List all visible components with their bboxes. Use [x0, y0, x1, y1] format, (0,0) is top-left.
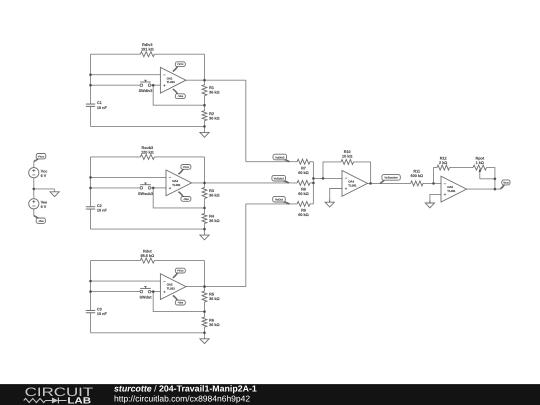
resistor R2 — [202, 111, 219, 121]
svg-text:R5: R5 — [209, 293, 214, 297]
power flag +Vcc — [34, 154, 46, 162]
svg-text:+Vcc: +Vcc — [177, 269, 184, 273]
wire — [33, 178, 35, 199]
svg-text:191 kΩ: 191 kΩ — [141, 48, 154, 52]
wire VoDut rise — [245, 204, 247, 287]
wire — [354, 162, 371, 184]
svg-text:Vout: Vout — [503, 181, 509, 184]
svg-text:R2: R2 — [209, 112, 214, 116]
ground — [200, 336, 209, 343]
wire — [323, 162, 341, 179]
node output junction — [203, 285, 206, 288]
node R7 join — [312, 177, 315, 180]
svg-text:TL081: TL081 — [167, 287, 176, 291]
svg-text:TL081: TL081 — [167, 80, 176, 84]
svg-text:2 kΩ: 2 kΩ — [439, 161, 447, 165]
op-amp OA2 — [166, 170, 192, 196]
node supply midpoint — [33, 188, 36, 191]
node switch row junction — [89, 290, 92, 293]
wire — [91, 260, 141, 262]
node feedback branch — [322, 177, 325, 180]
wire — [153, 292, 204, 312]
wire — [204, 121, 206, 130]
wire — [313, 177, 342, 179]
node divider tap junction — [203, 207, 206, 210]
wire OA4 output — [368, 182, 411, 184]
node divider tap junction — [203, 104, 206, 107]
node output junction — [203, 182, 206, 185]
resistor R6 — [202, 317, 219, 327]
voltage source Vcc — [29, 168, 48, 178]
wire — [204, 96, 206, 111]
net flag VoSub3 — [272, 175, 289, 183]
wire — [204, 261, 206, 292]
svg-text:-Vee: -Vee — [183, 197, 189, 201]
svg-text:36 kΩ: 36 kΩ — [209, 297, 219, 301]
svg-text:1 kΩ: 1 kΩ — [476, 161, 484, 165]
power flag -Vee — [173, 295, 186, 305]
wire OA1 output — [186, 79, 246, 81]
power flag +Vcc — [173, 62, 186, 72]
wire — [91, 280, 161, 282]
node feedback tap junction — [152, 290, 155, 293]
wire VoDiv3 row — [246, 161, 297, 163]
wire — [487, 168, 495, 189]
svg-text:R12: R12 — [440, 156, 447, 160]
wire — [151, 84, 161, 86]
node switch row junction — [89, 187, 92, 190]
wire OA2 output — [192, 182, 298, 184]
wire — [91, 53, 141, 55]
svg-text:R8: R8 — [301, 188, 306, 192]
wire — [33, 209, 35, 216]
resistor R7 — [297, 159, 310, 175]
switch SWdiv3 — [139, 80, 153, 93]
node bottom junction — [203, 332, 206, 335]
wire — [91, 156, 141, 158]
op-amp OA5 — [441, 176, 467, 202]
svg-text:LAB: LAB — [67, 396, 91, 405]
wire — [204, 327, 206, 336]
svg-text:C3: C3 — [97, 308, 102, 312]
node R8 join — [312, 182, 315, 185]
svg-text:sturcotte / 204-Travail1-Manip: sturcotte / 204-Travail1-Manip2A-1 — [114, 384, 257, 394]
svg-text:VoDiv3: VoDiv3 — [275, 155, 285, 159]
svg-text:+Vcc: +Vcc — [38, 154, 45, 158]
wire — [330, 189, 342, 203]
power flag -Vee — [173, 89, 186, 99]
svg-text:SWsub3: SWsub3 — [138, 192, 153, 196]
wire — [91, 125, 205, 127]
svg-text:R11: R11 — [413, 170, 420, 174]
net flag VoDiv3 — [273, 154, 289, 162]
node feedback/output junction — [369, 182, 372, 185]
wire — [90, 157, 92, 207]
resistor Rdut — [140, 250, 154, 264]
switch SWsub3 — [138, 183, 153, 196]
ground — [425, 200, 434, 207]
svg-text:R10: R10 — [344, 150, 351, 154]
capacitor C1 — [86, 101, 108, 110]
svg-text:36 kΩ: 36 kΩ — [209, 117, 219, 121]
svg-text:R9: R9 — [301, 209, 306, 213]
wire — [153, 85, 204, 105]
svg-text:http://circuitlab.com/cx8984n6: http://circuitlab.com/cx8984n6h9p42 — [114, 393, 250, 403]
svg-text:-Vee: -Vee — [38, 219, 44, 223]
wire — [151, 291, 161, 293]
svg-text:10 nF: 10 nF — [97, 312, 108, 316]
capacitor C2 — [86, 204, 108, 213]
wire — [310, 203, 313, 205]
wire — [34, 188, 55, 190]
node output junction — [203, 79, 206, 82]
svg-text:36 kΩ: 36 kΩ — [209, 323, 219, 327]
wire — [33, 162, 35, 168]
svg-text:R7: R7 — [301, 166, 306, 170]
resistor R1 — [202, 85, 219, 96]
net flag Vout — [500, 180, 510, 189]
wire — [90, 313, 92, 333]
svg-text:10 nF: 10 nF — [97, 106, 108, 110]
potentiometer Rpot — [473, 156, 487, 179]
wire — [434, 168, 438, 184]
wire VoDut row — [246, 203, 297, 205]
wire — [154, 260, 204, 262]
node switch row junction — [89, 84, 92, 87]
svg-text:6 V: 6 V — [41, 174, 47, 178]
net flag VoDut — [273, 196, 290, 204]
wire wiper — [480, 178, 495, 180]
wire — [91, 187, 141, 189]
resistor R12 — [437, 156, 450, 170]
svg-text:600 kΩ: 600 kΩ — [411, 174, 424, 178]
svg-text:+Vcc: +Vcc — [183, 165, 190, 169]
wire — [204, 54, 206, 84]
svg-text:-Vee: -Vee — [177, 94, 183, 98]
svg-text:Rpot: Rpot — [475, 156, 484, 160]
resistor Rsub3 — [140, 146, 154, 160]
op-amp OA3 — [160, 274, 186, 300]
svg-text:Rdiv3: Rdiv3 — [142, 43, 152, 47]
wire — [310, 182, 313, 184]
wire — [90, 106, 92, 126]
svg-text:60 kΩ: 60 kΩ — [298, 213, 308, 217]
svg-text:Vee: Vee — [41, 200, 48, 204]
svg-text:VoSomInv: VoSomInv — [384, 176, 398, 180]
resistor R4 — [202, 213, 219, 223]
power flag -Vee — [178, 192, 191, 202]
wire — [90, 209, 92, 229]
power flag +Vcc — [178, 165, 191, 175]
wire — [91, 291, 141, 293]
wire — [204, 198, 206, 213]
wire — [423, 182, 441, 184]
wire — [204, 157, 206, 188]
wire — [154, 53, 204, 55]
wire Vout — [467, 188, 502, 190]
svg-text:60 kΩ: 60 kΩ — [298, 171, 308, 175]
wire — [91, 332, 205, 334]
wire — [430, 194, 441, 203]
wire — [91, 74, 161, 76]
power flag -Vee — [34, 216, 46, 224]
svg-text:Vcc: Vcc — [41, 169, 48, 173]
svg-text:6 V: 6 V — [41, 205, 47, 209]
svg-text:R1: R1 — [209, 86, 214, 90]
wire — [450, 167, 474, 169]
ground — [325, 200, 334, 207]
net flag VoSomInv — [380, 175, 400, 184]
wire VoDiv3 drop — [245, 80, 247, 162]
svg-text:95.6 kΩ: 95.6 kΩ — [141, 254, 155, 258]
svg-text:TL081: TL081 — [172, 183, 181, 187]
wire summing join — [312, 162, 314, 204]
svg-text:-Vee: -Vee — [177, 301, 183, 305]
ground — [200, 130, 209, 137]
node inverting input junction — [89, 280, 92, 283]
resistor R9 — [297, 201, 310, 217]
svg-text:10 kΩ: 10 kΩ — [342, 155, 352, 159]
svg-text:Rdut: Rdut — [143, 250, 152, 254]
wire — [153, 188, 204, 208]
wire — [91, 176, 167, 178]
svg-text:36 kΩ: 36 kΩ — [209, 193, 219, 197]
svg-text:SWdiv3: SWdiv3 — [139, 89, 153, 93]
footer bar — [0, 384, 540, 405]
svg-text:36 kΩ: 36 kΩ — [209, 91, 219, 95]
ground — [50, 189, 59, 196]
svg-text:60 kΩ: 60 kΩ — [298, 192, 308, 196]
wire — [91, 84, 141, 86]
wire — [154, 156, 204, 158]
resistor R5 — [202, 291, 219, 302]
node feedback tap junction — [152, 187, 155, 190]
node inverting input junction — [89, 176, 92, 179]
resistor R3 — [202, 187, 219, 198]
op-amp OA4 — [342, 171, 368, 197]
svg-text:R6: R6 — [209, 318, 214, 322]
switch SWdut — [139, 287, 152, 300]
wire — [204, 302, 206, 317]
svg-text:SWdut: SWdut — [139, 296, 152, 300]
wire — [151, 187, 166, 189]
node R12 branch — [432, 182, 435, 185]
svg-text:VoDut: VoDut — [275, 198, 283, 202]
svg-text:+Vcc: +Vcc — [177, 62, 184, 66]
wire OA3 output — [186, 286, 246, 288]
wire — [204, 223, 206, 232]
node divider tap junction — [203, 310, 206, 313]
svg-text:Rsub3: Rsub3 — [142, 146, 154, 150]
wire — [90, 54, 92, 104]
node inverting input junction — [89, 73, 92, 76]
wire — [90, 261, 92, 311]
resistor R11 — [411, 170, 424, 186]
node output junction — [494, 188, 497, 191]
wire — [91, 228, 205, 230]
op-amp OA1 — [160, 67, 186, 93]
svg-text:36 kΩ: 36 kΩ — [209, 219, 219, 223]
resistor R10 — [341, 150, 354, 164]
svg-text:VoSub3: VoSub3 — [274, 177, 285, 181]
svg-text:10 nF: 10 nF — [97, 209, 108, 213]
power flag +Vcc — [173, 268, 186, 278]
node wiper junction — [494, 178, 497, 181]
node feedback tap junction — [152, 84, 155, 87]
resistor R8 — [297, 180, 310, 196]
svg-text:R3: R3 — [209, 189, 214, 193]
ground — [200, 233, 209, 240]
capacitor C3 — [86, 308, 108, 317]
svg-text:C1: C1 — [97, 101, 102, 105]
voltage source Vee — [29, 199, 47, 209]
wire — [310, 161, 313, 163]
svg-text:TL081: TL081 — [348, 183, 357, 187]
svg-text:120 kΩ: 120 kΩ — [141, 150, 154, 154]
svg-text:TL081: TL081 — [447, 189, 456, 193]
node bottom junction — [203, 228, 206, 231]
node bottom junction — [203, 125, 206, 128]
svg-text:C2: C2 — [97, 204, 102, 208]
resistor Rdiv3 — [140, 43, 154, 57]
